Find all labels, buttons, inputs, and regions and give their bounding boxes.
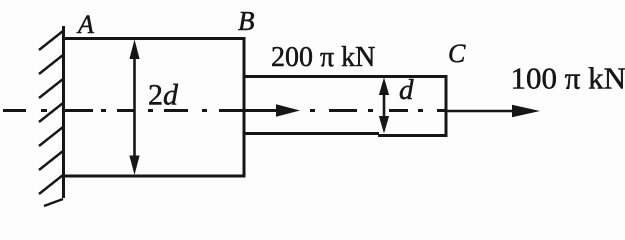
dimension arrow 2d [129,40,139,176]
dimension arrow d [379,78,389,134]
centerline dash-dot (axis of shaft) [3,109,446,112]
svg-text:C: C [448,39,466,68]
wall vertical line [62,26,65,198]
svg-text:d: d [399,74,414,106]
bar BC bottom edge right segment [378,134,448,137]
svg-text:B: B [238,6,255,36]
svg-text:2d: 2d [148,79,179,112]
wall hatch lines [39,31,63,206]
svg-text:100 π kN: 100 π kN [511,61,625,96]
bar AB outline (top, right, bottom edges) [63,39,244,177]
bar BC outline (top and right edges) [245,77,446,136]
svg-text:A: A [76,10,94,39]
force arrow at C (100 pi kN) [446,105,540,117]
bar BC bottom edge left segment [245,132,379,135]
svg-text:200 π kN: 200 π kN [271,42,375,73]
force arrow at B (200 pi kN) [246,104,300,117]
